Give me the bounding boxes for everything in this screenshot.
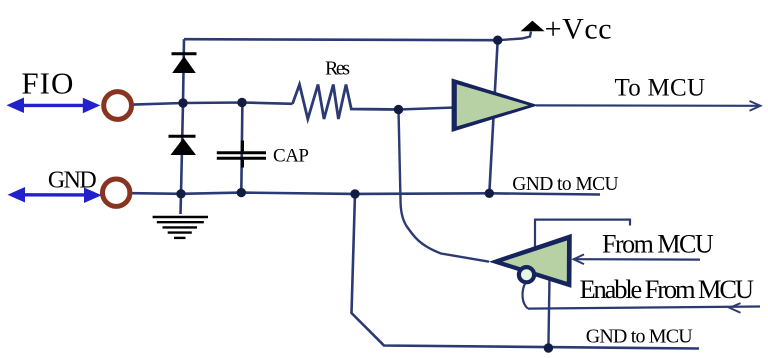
GND terminal circle [103, 179, 130, 206]
svg-text:+Vcc: +Vcc [545, 12, 612, 45]
diode D1 (upper, to Vcc rail) [172, 54, 197, 73]
capacitor C1 (CAP) [217, 141, 266, 168]
node: bottom rail junction [544, 343, 553, 352]
node: resistor output junction [394, 105, 403, 114]
svg-text:GND to MCU: GND to MCU [512, 174, 618, 195]
svg-text:To MCU: To MCU [615, 75, 706, 102]
FIO bidirectional blue arrow [6, 98, 100, 114]
wire: From MCU input with open arrowhead [574, 254, 701, 264]
svg-text:FIO: FIO [21, 65, 73, 100]
svg-text:GND to MCU: GND to MCU [586, 325, 694, 347]
node: GND-diode junction [176, 189, 185, 198]
svg-text:Enable From MCU: Enable From MCU [580, 274, 755, 304]
wire: FIO row from terminal to resistor [133, 103, 293, 105]
wire: Vcc vertical through buffer U1 to GND row [489, 40, 497, 193]
GND bidirectional blue arrow [8, 187, 102, 203]
node: FIO-cap junction [237, 98, 246, 107]
buffer U1 (non-inverting, to MCU) [452, 78, 539, 132]
wire: enable hook from bubble to enable rail [523, 284, 528, 309]
resistor R1 zigzag [293, 85, 399, 120]
wire: buffer U1 output to MCU with open arrowhead [536, 101, 761, 111]
+Vcc symbol: wire hook and black up arrow [498, 21, 545, 41]
node: GND-cap junction [237, 188, 246, 197]
wire: buffer U2 power pin up and right with stub [535, 220, 630, 250]
svg-text:CAP: CAP [273, 145, 309, 166]
wire: GND row [132, 193, 600, 195]
wire: capacitor branch vertical [241, 103, 242, 193]
node: GND buffer U1 junction [485, 189, 494, 198]
FIO terminal circle [104, 92, 132, 120]
diode D2 (lower, to ground) [169, 136, 197, 155]
wire: diode branch vertical (FIO node down to ground symbol) [181, 39, 185, 214]
ground symbol [153, 217, 208, 238]
svg-text:GND: GND [48, 167, 97, 193]
wire: Enable From MCU rail with open arrowhead [528, 303, 760, 313]
node: FIO-diode junction [178, 98, 187, 107]
wire: GND row branch down to bottom rail [352, 194, 700, 349]
buffer U2 (tri-state, from MCU, points left) [489, 234, 572, 288]
svg-text:From MCU: From MCU [602, 230, 714, 259]
enable bubble on buffer U2 [519, 267, 534, 282]
wire: resistor output to buffer U1 input [399, 108, 456, 110]
node: Vcc junction [493, 36, 502, 45]
wire: buffer U2 ground pin down to bottom rail [548, 278, 549, 348]
wire: top rail from diode branch to Vcc junction [184, 39, 498, 40]
node: GND mid junction [350, 189, 359, 198]
wire: resistor output node down-diagonal to buffer U2 output apex [399, 110, 490, 262]
svg-text:Res: Res [325, 58, 350, 80]
